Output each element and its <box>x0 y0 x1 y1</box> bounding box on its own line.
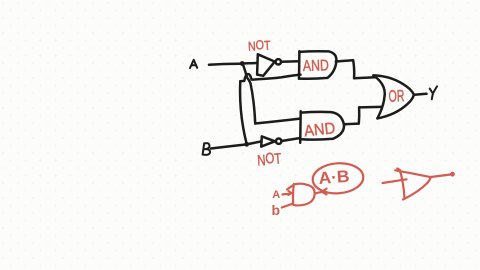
label OR <box>388 87 404 106</box>
label NOT (bottom) <box>257 149 282 169</box>
label AND (U2) <box>303 120 336 140</box>
wire <box>336 60 353 61</box>
junction A <box>240 61 245 66</box>
wire <box>359 106 381 109</box>
wire (red sketch and output) <box>315 189 327 195</box>
node b (red sketch input b) <box>272 202 281 218</box>
wire <box>358 107 361 123</box>
wire A-branch vertical <box>243 65 255 124</box>
wire <box>209 64 241 65</box>
wire A-branch horizontal <box>255 119 300 124</box>
label AND (U1) <box>303 57 330 75</box>
svg-text:AND: AND <box>303 57 330 75</box>
wire (red sketch input b) <box>282 204 293 208</box>
wire <box>245 62 258 65</box>
svg-text:b: b <box>272 202 281 218</box>
node B <box>203 143 210 155</box>
node (red output dot) <box>450 172 455 177</box>
svg-text:NOT: NOT <box>257 149 282 169</box>
or-gate (red sketch) <box>395 169 431 200</box>
svg-text:NOT: NOT <box>248 37 271 54</box>
inverter NOT2 <box>261 136 281 146</box>
wire <box>353 60 354 78</box>
wire <box>414 94 427 95</box>
junction B <box>244 142 249 147</box>
svg-text:AND: AND <box>303 120 336 140</box>
wire (red or output) <box>431 174 452 177</box>
wire <box>344 122 359 125</box>
node A (red sketch input a) <box>272 189 280 201</box>
circled label A·B <box>312 162 365 195</box>
svg-text:A: A <box>272 189 280 201</box>
wire (red sketch input a) <box>283 191 292 195</box>
wire <box>282 138 301 141</box>
node A <box>190 60 197 68</box>
wire (red or input) <box>383 179 407 183</box>
and-gate U1 <box>299 51 336 79</box>
or-gate U3 <box>373 75 414 118</box>
svg-text:OR: OR <box>388 87 404 106</box>
wire <box>211 145 245 149</box>
and-gate U2 <box>300 111 344 143</box>
wire B-branch with hop <box>240 74 300 81</box>
and-gate (red sketch) <box>287 184 315 206</box>
wire <box>281 60 299 63</box>
inverter NOT1 <box>257 54 281 76</box>
wire <box>249 141 262 144</box>
svg-text:A·B: A·B <box>318 167 350 188</box>
wire B-branch vertical <box>240 81 246 142</box>
wire <box>354 76 375 79</box>
label NOT (top) <box>248 37 271 54</box>
node Y <box>430 86 437 99</box>
